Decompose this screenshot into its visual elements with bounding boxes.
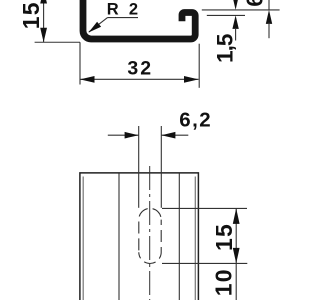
extension line slot right: [160, 126, 162, 208]
front view left channel line: [118, 174, 120, 300]
extension line hook bottom face going right: [207, 14, 245, 16]
svg-text:1,5: 1,5: [212, 34, 237, 63]
dimension 1,5 lower arrowhead (pointing up): [232, 15, 238, 29]
extension line slot top going right: [162, 207, 247, 209]
front view right channel line: [178, 174, 180, 300]
dimension 6 shaft above arrow: [268, 0, 270, 10]
front view outer outline: [80, 173, 198, 300]
extension line slot bottom going right: [162, 262, 247, 264]
dimension 32 dimension line: [80, 78, 199, 80]
dimension 10 dimension line (continues below): [235, 263, 237, 300]
dimension 6,2 right-pointing arrowhead: [125, 132, 139, 139]
dimension 6,2 left dimension line: [108, 134, 139, 136]
leader arrowhead: [89, 22, 102, 33]
extension line hook top face going right: [202, 9, 280, 11]
front view left bend line (light): [82, 177, 84, 300]
slot (dashed stadium): [139, 208, 161, 252]
svg-text:10: 10: [210, 268, 236, 296]
svg-text:32: 32: [127, 58, 153, 80]
dimension 15 slot down arrowhead: [233, 248, 240, 264]
dimension 32 right arrowhead: [184, 76, 199, 83]
svg-text:6,2: 6,2: [179, 108, 212, 131]
dimension 6 arrowhead (pointing up): [266, 10, 272, 24]
extension line slot left: [138, 126, 140, 208]
dimension 15 bottom arrowhead: [40, 28, 47, 43]
front view right bend line (light): [194, 177, 196, 300]
dimension 15 slot up arrowhead: [233, 208, 240, 224]
dimension 32 left arrowhead: [80, 76, 95, 83]
svg-text:R 2: R 2: [107, 0, 141, 18]
rail profile cross-section (thick G-profile outline): [83, 0, 195, 39]
extension line left for 32 dimension: [79, 42, 81, 84]
leader shoulder line under R 2: [108, 17, 139, 19]
dimension 6,2 left-pointing arrowhead: [161, 132, 175, 139]
dimension 1,5 lower shaft: [235, 28, 237, 41]
extension line bottom of profile going left: [35, 41, 80, 43]
dimension 15 (slot length) dimension line: [235, 208, 237, 263]
dimension 1,5 upper arrowhead (pointing down, cut at top): [232, 0, 238, 10]
dimension 15 (profile height) dimension line: [43, 0, 45, 42]
svg-text:6: 6: [242, 0, 268, 7]
dimension 6 lower shaft: [268, 23, 270, 39]
svg-text:15: 15: [211, 223, 237, 251]
slot lower half (dashed): [139, 220, 161, 264]
svg-text:15: 15: [18, 1, 44, 29]
dimension 6,2 right dimension line: [161, 134, 188, 136]
dimension 15 top arrowhead (cut off at top): [40, 0, 47, 4]
vertical centerline (dash-dot): [149, 166, 151, 300]
leader line to inner corner radius: [89, 18, 108, 32]
extension line right for 32 dimension: [198, 44, 200, 88]
